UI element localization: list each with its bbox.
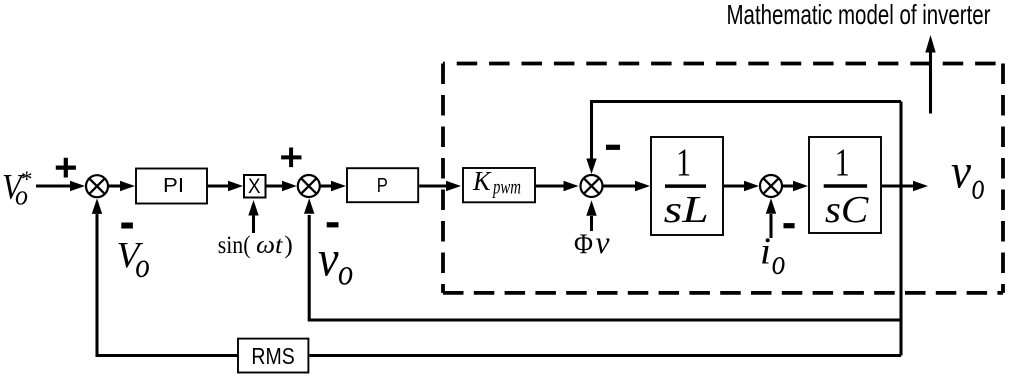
minus sign below sum1 <box>121 223 133 229</box>
summing junction sum4 <box>760 175 782 197</box>
output vertical tap line <box>899 102 902 356</box>
svg-text:o: o <box>135 246 150 285</box>
wire: PI to X <box>208 184 229 187</box>
svg-text:P: P <box>377 174 388 197</box>
svg-text:v: v <box>318 231 339 287</box>
label vo (output) <box>951 143 985 207</box>
svg-text:sC: sC <box>825 190 870 231</box>
rms feedback wire right segment <box>309 354 901 357</box>
svg-text:RMS: RMS <box>251 343 294 369</box>
inner feedback wire vo to sum2 <box>309 215 901 320</box>
label vo (inner feedback) <box>318 231 353 293</box>
block 1/sC <box>809 137 881 233</box>
label Vo (rms feedback) <box>117 236 150 285</box>
label sin(wt) <box>218 230 293 259</box>
summing junction sum1 <box>86 175 108 197</box>
svg-text:1: 1 <box>676 141 691 184</box>
block 1/sL <box>651 137 723 235</box>
block Kpwm <box>463 166 535 202</box>
svg-text:sin(: sin( <box>218 230 251 259</box>
wire: P to Kpwm <box>419 184 447 187</box>
wire: sum2 to P <box>320 184 332 187</box>
wire: sum1 to PI <box>109 184 122 187</box>
svg-text:o: o <box>338 253 353 294</box>
label Phi-v <box>574 224 610 260</box>
wire: X to sum2 <box>267 184 284 187</box>
svg-text:ωt: ωt <box>256 230 283 259</box>
output wire from 1/sC <box>882 184 914 187</box>
block P <box>347 168 418 202</box>
arrow: sin(wt) into X <box>252 215 255 233</box>
dashed box: mathematic model of inverter <box>443 62 1003 66</box>
summing junction sum3 <box>581 175 603 197</box>
rms feedback wire left segment <box>97 214 237 356</box>
svg-text:pwm: pwm <box>492 175 521 199</box>
summing junction sum2 <box>298 175 320 197</box>
svg-text:v: v <box>596 224 611 260</box>
block RMS <box>238 339 308 373</box>
top feedback wire from output vertical to sum3 <box>592 102 902 161</box>
wire: sum4 to 1/sC <box>783 184 795 187</box>
svg-text:*: * <box>21 167 33 192</box>
svg-text:o: o <box>772 242 786 282</box>
wire: Vo* input into sum1 <box>36 184 71 187</box>
minus sign above sum3 <box>606 145 620 150</box>
svg-text:sL: sL <box>664 190 709 231</box>
minus sign at sum4 <box>784 223 795 228</box>
minus sign at sum2 <box>327 222 339 227</box>
label io <box>760 230 785 282</box>
arrow up to model label <box>929 51 932 114</box>
svg-text:): ) <box>284 230 293 259</box>
wire: Kpwm to sum3 <box>536 184 565 187</box>
plus sign at sum2 <box>281 148 301 168</box>
block X (multiplier) <box>244 173 266 198</box>
svg-text:K: K <box>472 166 492 196</box>
svg-text:o: o <box>972 166 985 208</box>
svg-text:Mathematic model of inverter: Mathematic model of inverter <box>727 0 991 30</box>
svg-text:i: i <box>760 230 771 272</box>
wire: 1/sL to sum4 <box>724 184 745 187</box>
plus sign at sum1 <box>56 158 76 178</box>
wire: sum3 to 1/sL <box>603 184 636 187</box>
arrow: io into sum4 <box>769 214 772 238</box>
svg-text:PI: PI <box>163 174 184 197</box>
block PI <box>136 169 207 204</box>
node Vo* label <box>2 167 33 212</box>
svg-text:X: X <box>248 173 261 198</box>
svg-text:v: v <box>951 143 971 198</box>
svg-text:1: 1 <box>835 141 850 184</box>
svg-text:Φ: Φ <box>574 229 593 261</box>
arrow: Phi-v into sum3 <box>590 216 593 231</box>
